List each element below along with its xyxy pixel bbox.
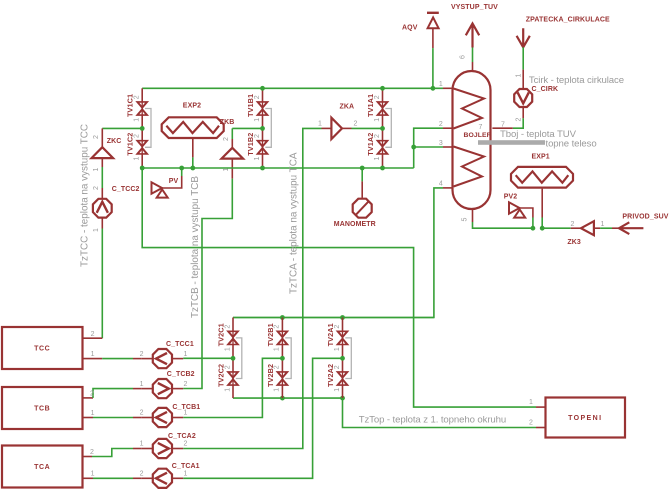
- svg-text:TzTCA - teplota na vystupu TCA: TzTCA - teplota na vystupu TCA: [289, 152, 300, 294]
- block TCC: [2, 327, 83, 369]
- arrow ZPATECKA_CIRKULACE: [517, 28, 530, 47]
- svg-text:1: 1: [439, 81, 443, 88]
- arrow PRIVOD_SUV: [619, 222, 643, 234]
- svg-text:1: 1: [224, 388, 231, 392]
- boiler coil lower: [454, 147, 485, 187]
- wire to ZK3: [542, 227, 571, 229]
- junction TV2C middle: [231, 356, 236, 361]
- junction lower top bus TV2B: [280, 315, 285, 320]
- svg-text:1: 1: [134, 118, 141, 122]
- svg-text:1: 1: [140, 381, 144, 388]
- wire MANOMETR stem: [361, 168, 363, 181]
- boiler BOJLER vessel: [453, 71, 491, 209]
- wire ZKA pin2 stub: [342, 127, 352, 129]
- junction top bus TV1A: [380, 86, 385, 91]
- valve TV2A2: [337, 372, 349, 386]
- svg-text:2: 2: [334, 365, 341, 369]
- expansion vessel EXP1: [511, 167, 573, 188]
- svg-text:2: 2: [90, 449, 94, 456]
- valve TV1B1: [257, 102, 269, 116]
- junction lower bottom bus TV2B: [280, 396, 285, 401]
- wire bottom bus net N2: [142, 167, 414, 169]
- svg-text:C_TCB2: C_TCB2: [167, 371, 195, 378]
- junction lower bottom bus TV2A: [340, 396, 345, 401]
- svg-text:2: 2: [224, 365, 231, 369]
- svg-text:TCA: TCA: [34, 464, 50, 471]
- svg-text:MANOMETR: MANOMETR: [334, 221, 376, 228]
- svg-text:ZKC: ZKC: [107, 138, 122, 145]
- svg-text:C_TCA2: C_TCA2: [168, 433, 196, 440]
- relief valve PV2: [509, 202, 520, 213]
- svg-text:C_TCC1: C_TCC1: [166, 341, 194, 348]
- wire AQV stem: [432, 28, 434, 48]
- wire ZPATECKA to C_CIRK: [522, 47, 524, 69]
- svg-text:ZKB: ZKB: [220, 119, 235, 126]
- wire net N2 long route to TOPENI pin1: [142, 168, 536, 407]
- svg-text:1: 1: [374, 157, 381, 161]
- svg-text:1: 1: [254, 118, 261, 122]
- junction TV2B middle: [280, 356, 285, 361]
- expansion vessel EXP2: [162, 117, 224, 138]
- wire EXP2 stem red: [192, 137, 194, 157]
- linkage TV2A: [345, 338, 351, 379]
- wire ZKB down jog: [183, 179, 232, 389]
- wire pump C_TCA2 left stub: [142, 448, 152, 450]
- check valve ZKA: [331, 118, 342, 139]
- svg-text:C_TCA1: C_TCA1: [172, 463, 200, 470]
- valve TV1B2: [257, 140, 269, 154]
- svg-text:2: 2: [90, 391, 94, 398]
- arrow VYSTUP_TUV: [466, 24, 479, 48]
- wire pump C_TCA1 left stub: [142, 477, 152, 479]
- svg-text:5: 5: [462, 217, 469, 221]
- svg-text:1: 1: [93, 167, 100, 171]
- svg-text:2: 2: [516, 117, 523, 121]
- svg-text:1: 1: [224, 347, 231, 351]
- pump C_TCC1: [153, 349, 172, 368]
- svg-text:PV: PV: [169, 178, 179, 185]
- pump C_TCB1: [153, 408, 172, 427]
- wire TCB pin1 to pump C_TCB1: [83, 417, 94, 419]
- svg-text:2: 2: [134, 134, 141, 138]
- svg-text:PV2: PV2: [504, 194, 518, 201]
- svg-text:2: 2: [140, 410, 144, 417]
- wire pump C_TCC1 right stub: [173, 358, 184, 360]
- wire boiler pin6 stem: [472, 62, 474, 72]
- svg-text:1: 1: [183, 351, 187, 358]
- wire pump C_TCC2 top stub: [101, 188, 103, 198]
- svg-text:2: 2: [274, 325, 281, 329]
- wire pump C_TCA1 right stub: [173, 477, 184, 479]
- junction top bus TV1B: [260, 86, 265, 91]
- wire PV green stub: [181, 168, 183, 176]
- wire pump C_TCB1 left stub: [142, 417, 152, 419]
- wire TV1B column: [262, 88, 264, 168]
- svg-text:1: 1: [601, 221, 605, 228]
- wire ZKA pin1 stub: [322, 127, 332, 129]
- junction bottom bus EXP2: [190, 166, 195, 171]
- pump C_TCB2: [153, 379, 172, 398]
- svg-text:C_TCC2: C_TCC2: [112, 186, 140, 193]
- wire pump C_TCB1 right stub: [173, 417, 184, 419]
- wire pump C_TCB2 right stub: [173, 388, 184, 390]
- svg-text:4: 4: [439, 181, 443, 188]
- junction TV1C middle: [140, 126, 145, 131]
- wire ZKA pin1 to pump C_TCA2: [183, 128, 321, 448]
- wire lower top bus: [233, 317, 434, 319]
- svg-text:BOJLER: BOJLER: [464, 132, 492, 139]
- junction bottom bus TV1C: [140, 166, 145, 171]
- svg-text:2: 2: [224, 325, 231, 329]
- junction bottom bus MANOMETR: [360, 166, 365, 171]
- svg-text:EXP1: EXP1: [532, 154, 550, 161]
- wire pump C_TCB2 left stub: [142, 388, 152, 390]
- svg-text:PRIVOD_SUV: PRIVOD_SUV: [622, 214, 668, 221]
- wire bus up to boiler pin3: [413, 147, 415, 168]
- wire ZKC to TV1C middle: [102, 127, 142, 129]
- svg-text:ZKA: ZKA: [340, 104, 355, 111]
- pump C_TCA2: [153, 439, 172, 458]
- wire TCA pin2 jog to pump C_TCA2: [83, 456, 93, 458]
- svg-text:1: 1: [374, 118, 381, 122]
- wire TV2C column: [232, 318, 234, 399]
- wire boiler pin3 link: [414, 146, 443, 148]
- junction bottom bus TV1B: [260, 166, 265, 171]
- junction EXP1: [540, 226, 545, 231]
- svg-text:1: 1: [140, 441, 144, 448]
- linkage TV1C: [145, 109, 151, 148]
- valve TV2B2: [276, 372, 288, 386]
- block TCA: [2, 446, 83, 488]
- svg-text:2: 2: [374, 95, 381, 99]
- wire TV2A middle feed: [183, 358, 342, 478]
- svg-text:2: 2: [529, 420, 533, 427]
- svg-text:1: 1: [91, 351, 95, 358]
- svg-text:TzTop - teplota z 1. topneho o: TzTop - teplota z 1. topneho okruhu: [359, 415, 506, 426]
- svg-text:1: 1: [183, 471, 187, 478]
- svg-text:AQV: AQV: [402, 25, 418, 32]
- pump C_TCA1: [153, 469, 172, 488]
- linkage TV2C: [236, 338, 242, 379]
- svg-text:2: 2: [140, 471, 144, 478]
- svg-text:ZK3: ZK3: [567, 239, 581, 246]
- svg-text:TzTCB - teplota na vystupu TCB: TzTCB - teplota na vystupu TCB: [190, 176, 201, 318]
- wire TCC pin1 to pump C_TCC1: [83, 358, 103, 360]
- svg-text:2: 2: [183, 381, 187, 388]
- svg-text:6: 6: [460, 55, 467, 59]
- valve TV1A1: [377, 102, 389, 116]
- svg-text:1: 1: [91, 471, 95, 478]
- linkage TV1B: [265, 109, 271, 148]
- wire to boiler pin2: [414, 128, 443, 147]
- wire C_CIRK to boiler pin7: [513, 118, 523, 128]
- svg-text:TCB: TCB: [34, 406, 50, 413]
- block TCB: [2, 387, 83, 429]
- wire TOPENI pin2 stub: [536, 427, 546, 429]
- svg-text:1: 1: [91, 410, 95, 417]
- gauge MANOMETR: [353, 199, 372, 218]
- svg-text:1: 1: [334, 388, 341, 392]
- junction TV1B middle: [260, 126, 265, 131]
- wire TV2A column: [342, 318, 344, 399]
- wire boiler pin5 stem: [472, 209, 474, 222]
- junction TV1A middle: [380, 126, 385, 131]
- wire ZKC bottom stem: [101, 158, 103, 167]
- wire boiler pin4 stub: [443, 187, 453, 189]
- wire C_TCC2 to TCC pin2: [101, 229, 103, 339]
- wire top bus net N1: [142, 87, 443, 89]
- svg-text:1: 1: [274, 347, 281, 351]
- linkage TV2B: [285, 338, 291, 379]
- valve TV1A2: [377, 140, 389, 154]
- svg-text:2: 2: [571, 221, 575, 228]
- wire C_CIRK pin2 stub: [522, 108, 524, 119]
- junction bottom bus PV: [179, 166, 184, 171]
- svg-text:VYSTUP_TUV: VYSTUP_TUV: [451, 4, 498, 11]
- check valve ZK3: [581, 221, 594, 235]
- wire TCC pin2 stub: [83, 337, 103, 339]
- wire ZK3 to PRIVOD: [594, 227, 600, 229]
- wire ZKA to TV1A middle: [352, 127, 383, 129]
- wire pump C_TCC2 bottom stub: [101, 218, 103, 228]
- junction top bus AQV: [431, 86, 436, 91]
- junction bottom bus TV1A: [380, 166, 385, 171]
- svg-text:2: 2: [134, 95, 141, 99]
- svg-text:2: 2: [354, 121, 358, 128]
- wire lower bottom bus: [233, 397, 343, 399]
- wire pump C_TCC1 left stub: [142, 358, 152, 360]
- wire PV to bus: [162, 176, 182, 188]
- wire TV2B middle feed: [183, 358, 282, 417]
- wire boiler pin3 stub: [443, 146, 453, 148]
- check valve ZKB: [222, 148, 244, 159]
- svg-text:1: 1: [93, 228, 100, 232]
- wire TV1A column: [382, 88, 384, 168]
- valve TV2C2: [227, 372, 239, 386]
- wire boiler pin4 to lower bus: [233, 188, 443, 318]
- check valve ZKC: [92, 147, 114, 158]
- svg-text:1: 1: [254, 157, 261, 161]
- junction PV2: [531, 226, 536, 231]
- wire TOPENI pin2 route: [343, 398, 537, 427]
- svg-text:2: 2: [254, 134, 261, 138]
- junction boiler pin3 node: [411, 145, 416, 150]
- svg-text:2: 2: [183, 441, 187, 448]
- svg-text:2: 2: [374, 134, 381, 138]
- svg-text:2: 2: [93, 135, 100, 139]
- svg-text:2: 2: [334, 325, 341, 329]
- block TOPENI: [546, 398, 626, 438]
- svg-text:2: 2: [439, 121, 443, 128]
- svg-text:C_CIRK: C_CIRK: [532, 86, 559, 93]
- wire TV2B column: [281, 318, 283, 399]
- wire TCB pin2 jog to pump C_TCB2: [83, 397, 94, 399]
- svg-text:3: 3: [439, 140, 443, 147]
- svg-text:1: 1: [334, 347, 341, 351]
- vent symbol AQV: [428, 17, 439, 28]
- wire EXP2 stem green: [192, 157, 194, 168]
- boiler coil upper: [454, 89, 485, 129]
- svg-text:2: 2: [254, 95, 261, 99]
- wire ZKC top stem: [101, 128, 103, 148]
- wire ZKC to pump C_TCC2: [101, 167, 103, 188]
- gray bar topne teleso: [478, 140, 545, 145]
- valve TV2B1: [276, 331, 288, 345]
- svg-text:1: 1: [183, 410, 187, 417]
- junction lower top bus TV2A: [340, 315, 345, 320]
- svg-text:Tcirk - teplota cirkulace: Tcirk - teplota cirkulace: [529, 75, 624, 86]
- wire ZKB to TV1B middle: [232, 127, 262, 129]
- junction TV2A middle: [340, 356, 345, 361]
- wire pump C_TCC1 to TV2C middle: [183, 357, 233, 359]
- pump C_CIRK: [514, 89, 532, 107]
- svg-text:7: 7: [479, 124, 483, 131]
- svg-text:2: 2: [274, 365, 281, 369]
- wire ZKB top pin: [231, 139, 233, 149]
- svg-text:2: 2: [93, 186, 100, 190]
- svg-text:ZPATECKA_CIRKULACE: ZPATECKA_CIRKULACE: [526, 17, 610, 24]
- valve TV1C2: [136, 140, 148, 154]
- valve TV1C1: [136, 102, 148, 116]
- svg-text:2: 2: [223, 137, 230, 141]
- wire PV2 to bus: [520, 208, 533, 218]
- wire boiler pin1 stub: [443, 87, 453, 89]
- wire boiler pin2 stub: [443, 127, 453, 129]
- svg-text:1: 1: [318, 121, 322, 128]
- svg-text:TOPENI: TOPENI: [568, 415, 602, 422]
- svg-text:1: 1: [516, 73, 523, 77]
- wire ZKB top stem: [231, 128, 233, 139]
- wire TV1C column: [141, 88, 143, 168]
- wire TOPENI pin1 stub: [536, 406, 546, 408]
- linkage TV1A: [385, 109, 391, 148]
- wire TCA pin1 to pump C_TCA1: [83, 477, 94, 479]
- wire ZKB bottom stem: [231, 159, 233, 179]
- svg-text:TCC: TCC: [34, 346, 50, 353]
- wire EXP1 stem: [541, 189, 543, 218]
- svg-text:1: 1: [529, 399, 533, 406]
- svg-text:topne teleso: topne teleso: [546, 138, 597, 149]
- pump C_TCC2: [93, 199, 112, 218]
- valve TV2A1: [337, 331, 349, 345]
- valve TV2C1: [227, 331, 239, 345]
- svg-text:2: 2: [140, 351, 144, 358]
- svg-text:1: 1: [134, 157, 141, 161]
- svg-text:TzTCC - teplota na vystupu TCC: TzTCC - teplota na vystupu TCC: [79, 124, 90, 267]
- svg-text:1: 1: [274, 388, 281, 392]
- svg-text:EXP2: EXP2: [183, 103, 201, 110]
- svg-text:2: 2: [91, 331, 95, 338]
- relief valve PV: [152, 182, 163, 193]
- wire pump C_TCA2 right stub: [173, 448, 184, 450]
